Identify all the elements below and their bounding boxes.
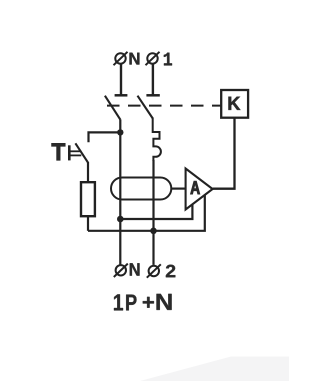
terminal circle Ø 1 (top) bbox=[146, 52, 160, 65]
current transformer toroid bbox=[111, 178, 171, 200]
wire: 1 pole vertical bbox=[152, 160, 154, 265]
label 2 (bottom terminal) bbox=[166, 265, 175, 278]
wire: N terminal stub bbox=[120, 64, 122, 96]
trip linkage (dashed) bbox=[107, 105, 221, 107]
wire: test branch bbox=[89, 132, 121, 142]
test push button actuator bbox=[69, 145, 81, 160]
label N (top terminal) bbox=[130, 53, 140, 65]
wire: 1 terminal stub bbox=[152, 64, 154, 96]
wire: N supply bus to amplifier bbox=[120, 204, 192, 220]
test switch blade bbox=[75, 143, 88, 162]
label 1 (top terminal) bbox=[164, 53, 172, 66]
label A bbox=[191, 181, 200, 194]
switch blade, N pole bbox=[105, 96, 120, 120]
wire: CT secondary to amplifier input bbox=[171, 188, 185, 190]
wire: amplifier output to relay K bbox=[213, 118, 235, 189]
label 1P+N bbox=[114, 294, 172, 311]
terminal circle Ø N (top) bbox=[114, 52, 128, 65]
wire: resistor to lower bus bbox=[87, 216, 89, 231]
thermal-magnetic trip element, 1 pole bbox=[153, 118, 161, 161]
label N (bottom terminal) bbox=[130, 263, 140, 275]
switch blade, 1 pole bbox=[138, 96, 153, 119]
label T bbox=[52, 143, 65, 160]
label K bbox=[229, 97, 241, 110]
terminal circle Ø N (bottom) bbox=[114, 264, 128, 277]
wire: phase/test bus to amplifier bbox=[88, 194, 205, 231]
fixed contact bar, 1 pole bbox=[146, 94, 159, 97]
resistor (test) bbox=[81, 182, 95, 216]
junction: phase bus tap bbox=[150, 228, 157, 235]
wire: test blade to resistor bbox=[87, 162, 89, 182]
terminal circle Ø 2 (bottom) bbox=[147, 264, 161, 277]
junction: test tap on N pole bbox=[117, 129, 123, 135]
wire: N pole vertical bbox=[119, 119, 121, 264]
fixed contact bar, N pole bbox=[115, 94, 128, 97]
amplifier triangle bbox=[186, 169, 213, 210]
trip relay K box bbox=[221, 90, 248, 118]
junction: N bus tap bbox=[117, 216, 124, 223]
